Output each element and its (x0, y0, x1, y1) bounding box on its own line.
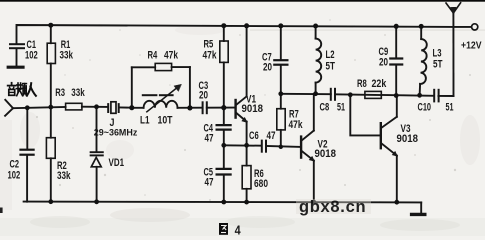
svg-text:20: 20 (379, 57, 388, 69)
svg-text:R4: R4 (148, 50, 158, 62)
svg-text:47k: 47k (164, 50, 178, 62)
svg-text:47k: 47k (289, 119, 303, 131)
svg-text:33k: 33k (60, 49, 74, 61)
svg-text:C10: C10 (418, 102, 432, 114)
svg-text:10T: 10T (158, 115, 173, 127)
svg-text:9018: 9018 (315, 148, 337, 160)
svg-text:47k: 47k (203, 50, 217, 62)
svg-text:102: 102 (25, 49, 38, 61)
svg-text:47: 47 (205, 133, 214, 145)
svg-text:C8: C8 (320, 102, 330, 114)
svg-text:51: 51 (446, 102, 454, 114)
svg-text:R3: R3 (55, 87, 65, 99)
svg-text:20: 20 (199, 90, 208, 102)
svg-text:47: 47 (267, 130, 276, 142)
svg-text:9018: 9018 (397, 133, 419, 145)
svg-text:102: 102 (8, 170, 21, 182)
svg-text:L2: L2 (326, 49, 335, 61)
svg-text:R8: R8 (357, 78, 367, 90)
svg-text:51: 51 (337, 102, 345, 114)
svg-text:4: 4 (235, 222, 242, 236)
svg-text:680: 680 (254, 178, 268, 190)
svg-text:C6: C6 (249, 130, 259, 142)
svg-text:33k: 33k (71, 87, 85, 99)
svg-text:22k: 22k (372, 78, 387, 90)
svg-text:9018: 9018 (242, 103, 264, 115)
svg-text:5T: 5T (326, 61, 336, 73)
svg-text:+12V: +12V (461, 41, 482, 52)
svg-text:5T: 5T (433, 59, 443, 71)
svg-text:L1: L1 (140, 115, 150, 127)
svg-text:VD1: VD1 (109, 157, 125, 169)
svg-text:29~36MHz: 29~36MHz (94, 128, 138, 138)
svg-text:47: 47 (205, 177, 214, 189)
svg-text:33k: 33k (57, 170, 71, 182)
svg-text:20: 20 (263, 62, 272, 74)
svg-text:gbx8.cn: gbx8.cn (299, 198, 366, 216)
